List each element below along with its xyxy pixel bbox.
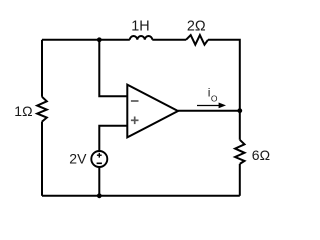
resistor 6ohm	[235, 140, 244, 164]
svg-text:1Ω: 1Ω	[14, 103, 32, 119]
svg-text:6Ω: 6Ω	[252, 147, 270, 163]
wire left-bottom segment	[41, 122, 43, 196]
label 1ohm	[14, 103, 32, 119]
node junction output right	[237, 108, 242, 113]
label iO	[208, 86, 218, 104]
label 2ohm	[187, 19, 206, 35]
resistor 1ohm	[37, 97, 47, 122]
wire op-amp output	[178, 110, 240, 112]
voltage source plus sign	[97, 153, 102, 158]
svg-text:2V: 2V	[69, 150, 87, 166]
label 6ohm	[252, 147, 270, 163]
inductor L 1H	[130, 36, 153, 40]
wire right-bottom segment	[239, 164, 241, 196]
label 2V	[69, 150, 87, 166]
wire noninverting input from source top	[99, 126, 127, 151]
node junction bottom	[97, 193, 102, 198]
wire from source bottom to bottom node	[98, 168, 100, 196]
op-amp U1	[127, 85, 178, 138]
wire top-right corner down right side	[208, 40, 240, 140]
svg-text:1H: 1H	[131, 18, 149, 34]
voltage source 2V	[91, 151, 107, 167]
op-amp minus sign	[131, 100, 139, 102]
wire between inductor and 2ohm resistor	[152, 39, 186, 41]
voltage source minus sign	[97, 162, 102, 164]
resistor 2ohm	[186, 35, 208, 45]
current arrow iO	[197, 103, 226, 109]
svg-text:O: O	[211, 93, 218, 103]
wire from top node down to inverting input	[99, 40, 127, 97]
op-amp plus sign	[131, 117, 139, 125]
wire left-top segment	[41, 40, 43, 97]
node junction top	[97, 37, 102, 42]
wire top-left segment	[42, 39, 130, 41]
svg-text:2Ω: 2Ω	[187, 19, 206, 35]
wire bottom	[42, 195, 240, 197]
label 1H	[131, 18, 149, 34]
